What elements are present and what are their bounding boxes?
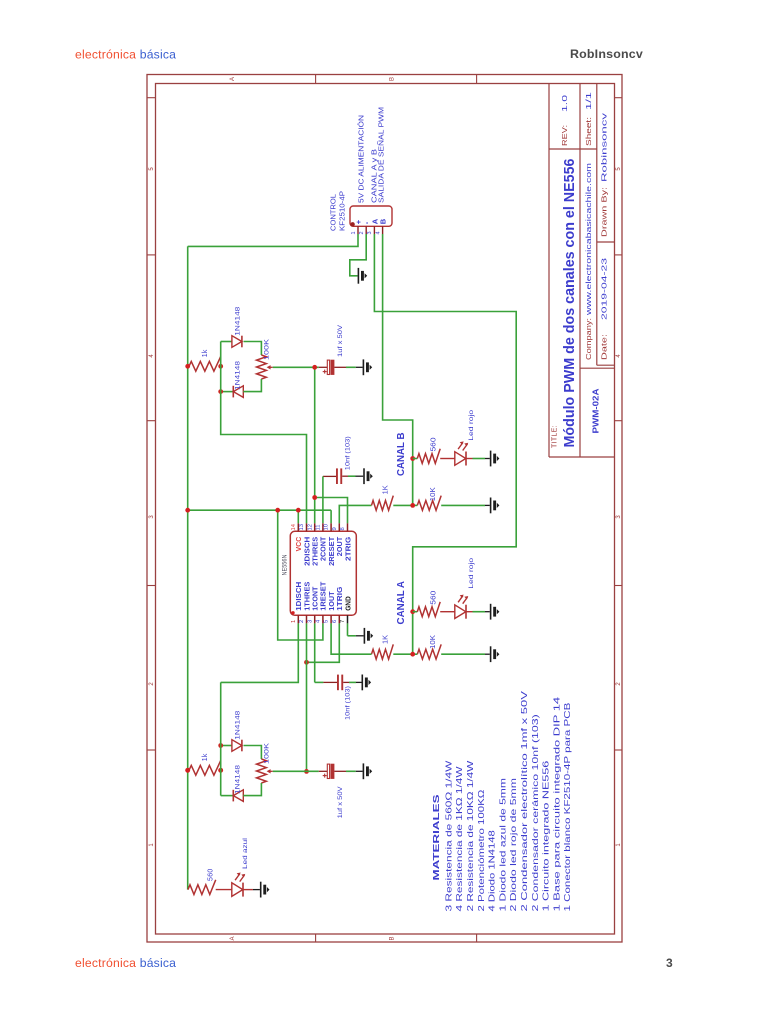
LED red canal A xyxy=(455,605,466,619)
svg-text:1K: 1K xyxy=(383,635,390,644)
resistor 1k bottom body xyxy=(189,760,221,775)
connector X1 KF2510-4P body xyxy=(350,206,392,226)
diode 1N4148 bottom D-bottom xyxy=(221,795,234,797)
ground at 10K canal A xyxy=(490,646,492,662)
svg-text:2OUT: 2OUT xyxy=(337,536,344,556)
resistor 1K canal A xyxy=(372,644,394,659)
capacitor 1uF top right lead xyxy=(334,366,346,368)
svg-text:VCC: VCC xyxy=(296,537,303,552)
capacitor electrolytic 1uF top xyxy=(327,360,329,374)
wire node vertical canal A xyxy=(412,612,414,655)
svg-text:10K: 10K xyxy=(430,635,437,649)
connector X1 pin stubs xyxy=(358,226,383,234)
capacitor 1uF bottom lead xyxy=(319,770,327,772)
capacitor electrolytic 1uF bottom xyxy=(327,764,329,778)
resistor 560 canal A xyxy=(417,602,440,617)
IC U1 bottom pin numbers xyxy=(291,619,346,623)
svg-text:www.electronicabasicachile.com: www.electronicabasicachile.com xyxy=(584,163,593,316)
ground at pin7 xyxy=(364,628,366,644)
svg-text:1N4148: 1N4148 xyxy=(235,710,242,739)
svg-text:3 Resistencia de 560Ω 1/4W: 3 Resistencia de 560Ω 1/4W xyxy=(444,760,453,911)
wire pin11 2CONT to 10nf xyxy=(322,476,324,523)
wire wiper row top xyxy=(273,366,319,368)
svg-text:12: 12 xyxy=(307,524,313,530)
junction dot node RES canal B xyxy=(410,503,415,508)
wire node vertical canal B xyxy=(412,459,414,506)
svg-text:1/1: 1/1 xyxy=(584,92,593,110)
svg-text:5V DC ALIMENTACIÓN: 5V DC ALIMENTACIÓN xyxy=(357,115,366,203)
svg-text:2 Potenciómetro 100KΩ: 2 Potenciómetro 100KΩ xyxy=(477,790,486,912)
svg-text:CANAL B: CANAL B xyxy=(396,433,407,477)
junction dot pin2 pin6 jog xyxy=(304,660,309,665)
wire connector pin1 to +5V rail xyxy=(188,234,358,246)
wire LED azul to ground xyxy=(243,889,253,891)
wire pin1 1DISCH to bottom network xyxy=(221,623,299,682)
capacitor 10nf top right lead xyxy=(342,475,348,477)
svg-text:1k: 1k xyxy=(202,753,209,761)
LED red canal B xyxy=(455,452,466,466)
wire pin3 1CONT down xyxy=(314,623,316,682)
IC U1 top pin numbers xyxy=(291,523,346,530)
connector X1 pin numbers 1 2 3 4 xyxy=(351,231,382,234)
svg-text:3: 3 xyxy=(666,956,673,970)
frame outer border xyxy=(147,75,622,943)
svg-text:CONTROL: CONTROL xyxy=(331,194,338,231)
svg-text:2THRES: 2THRES xyxy=(313,536,320,565)
capacitor 10nf bottom right lead xyxy=(343,681,349,683)
svg-text:9: 9 xyxy=(332,527,338,530)
svg-text:5: 5 xyxy=(324,620,330,623)
svg-text:13: 13 xyxy=(299,524,305,530)
svg-text:NE556N: NE556N xyxy=(282,554,289,575)
ground at 10nf top xyxy=(363,468,365,484)
wire LED to ground canal B xyxy=(466,458,472,460)
IC U1 pin1 marker dot xyxy=(291,611,294,614)
svg-text:2: 2 xyxy=(299,620,305,623)
svg-text:Led rojo: Led rojo xyxy=(468,557,475,588)
resistor 1k top body xyxy=(189,357,221,372)
wire connector pin3 A to canal A xyxy=(374,234,516,654)
svg-text:CANAL A: CANAL A xyxy=(396,581,407,625)
wire pot bottom to diode bottom top xyxy=(243,379,261,392)
wire 560 to LED azul xyxy=(216,889,232,891)
svg-text:100K: 100K xyxy=(264,338,271,360)
wire VCC horizontal to pins 14 and 10 xyxy=(188,509,331,511)
svg-text:RobInsoncv: RobInsoncv xyxy=(570,47,643,61)
wire pin2 1THRES down to bottom wiper row xyxy=(306,623,308,771)
ground at 10nf bottom xyxy=(362,675,364,691)
capacitor 10nf bottom lead xyxy=(323,681,337,683)
resistor 1K canal B xyxy=(372,496,394,511)
svg-text:560: 560 xyxy=(430,591,437,605)
svg-text:electrónica básica: electrónica básica xyxy=(75,48,176,62)
wire 10K to ground canal A xyxy=(441,653,485,655)
ground at LED canal A xyxy=(490,604,492,620)
wire node to 10K canal A xyxy=(413,653,418,655)
wire pin10 stub up xyxy=(330,510,332,523)
svg-text:560: 560 xyxy=(430,437,437,451)
ground near connector xyxy=(358,268,360,284)
wire pin5 1OUT to canal A resistor xyxy=(331,623,371,654)
svg-text:1 Diodo led azul de 5mm: 1 Diodo led azul de 5mm xyxy=(498,778,507,912)
svg-text:10K: 10K xyxy=(430,487,437,501)
junction dots bottom network xyxy=(185,768,190,773)
potentiometer 100K bottom wiper arrow xyxy=(269,770,273,772)
svg-text:2RESET: 2RESET xyxy=(329,536,336,566)
wire node to 560 canal A xyxy=(413,611,418,613)
svg-text:14: 14 xyxy=(291,523,297,530)
op-amp U1 NE556N body xyxy=(290,531,356,615)
svg-text:2DISCH: 2DISCH xyxy=(304,537,311,566)
svg-text:4: 4 xyxy=(375,231,381,234)
svg-text:1RESET: 1RESET xyxy=(321,581,328,611)
wire node to 10K canal B xyxy=(413,504,418,506)
diode 1N4148 top D-top xyxy=(221,341,232,343)
ground at 10K canal B xyxy=(490,498,492,514)
wire 10K to ground canal B xyxy=(441,504,485,506)
svg-text:1 Base para circuito integrado: 1 Base para circuito integrado DIP 14 xyxy=(552,696,561,911)
svg-text:Led azul: Led azul xyxy=(242,837,249,869)
junction dot rail VCC line xyxy=(185,508,190,513)
svg-text:4 Diodo 1N4148: 4 Diodo 1N4148 xyxy=(488,830,497,912)
svg-text:Company:: Company: xyxy=(584,318,593,360)
svg-text:2019-04-23: 2019-04-23 xyxy=(599,258,608,320)
wire pin7 GND to ground xyxy=(347,623,349,635)
wire wiper row bottom xyxy=(273,770,319,772)
junction dots top network xyxy=(185,364,190,369)
frame ticks xyxy=(147,75,622,943)
svg-text:PWM-02A: PWM-02A xyxy=(590,389,600,434)
svg-text:TITLE:: TITLE: xyxy=(552,425,559,448)
svg-text:B: B xyxy=(379,218,388,224)
wire network vertical top xyxy=(220,342,222,392)
svg-text:1: 1 xyxy=(351,231,357,234)
svg-text:1OUT: 1OUT xyxy=(329,591,336,611)
svg-text:2 Diodo led rojo de 5mm: 2 Diodo led rojo de 5mm xyxy=(509,778,518,912)
svg-text:A: A xyxy=(230,936,236,940)
resistor 10K canal A xyxy=(417,644,441,659)
svg-text:11: 11 xyxy=(316,524,322,530)
svg-text:1K: 1K xyxy=(383,485,390,494)
svg-text:2 Condensador cerámico 10nf (1: 2 Condensador cerámico 10nf (103) xyxy=(531,714,540,912)
capacitor 1uF top lead xyxy=(319,366,327,368)
wire LED to ground canal A xyxy=(466,611,472,613)
junction dot node LED canal A xyxy=(410,609,415,614)
wire 560 to LED canal B xyxy=(440,458,455,460)
LED azul xyxy=(232,883,243,897)
wire 1K to node canal A xyxy=(393,653,412,655)
svg-text:1N4148: 1N4148 xyxy=(235,765,242,794)
potentiometer 100K bottom body xyxy=(257,759,267,783)
svg-text:2CONT: 2CONT xyxy=(321,536,328,561)
wire +5V rail vertical xyxy=(187,246,189,889)
svg-text:7: 7 xyxy=(340,620,346,623)
svg-text:1THRES: 1THRES xyxy=(304,581,311,610)
wire pin14 stub up xyxy=(297,510,299,523)
svg-text:SALIDA DE SEÑAL PWM: SALIDA DE SEÑAL PWM xyxy=(376,107,385,203)
svg-text:1 Circuito integrado NE556: 1 Circuito integrado NE556 xyxy=(542,760,551,912)
wire pin12 2THRES to wiper row xyxy=(314,367,316,523)
svg-text:6: 6 xyxy=(332,620,338,623)
connector X1 pin labels + - A B xyxy=(354,218,388,224)
svg-text:2 Resistencia de 10KΩ 1/4W: 2 Resistencia de 10KΩ 1/4W xyxy=(466,760,475,911)
IC U1 top pin labels xyxy=(296,536,352,566)
svg-text:CANAL A y B: CANAL A y B xyxy=(371,149,378,203)
ground at 1uF bottom xyxy=(363,763,365,779)
junction dot VCC branch pin4 xyxy=(275,508,280,513)
svg-text:2 Condensador electrolítico 1m: 2 Condensador electrolítico 1mf x 50V xyxy=(520,690,529,911)
wire pin12 to pin8 2TRIG jog xyxy=(315,498,348,524)
wire 1K to node canal B xyxy=(393,504,412,506)
frame row numbers xyxy=(149,167,622,847)
svg-text:10nf (103): 10nf (103) xyxy=(345,436,352,470)
resistor 560 canal B xyxy=(417,449,440,464)
svg-text:1CONT: 1CONT xyxy=(313,586,320,611)
potentiometer 100K top body xyxy=(257,355,267,379)
svg-text:560: 560 xyxy=(208,868,215,881)
svg-text:electrónica básica: electrónica básica xyxy=(75,956,176,970)
diode 1N4148 bottom D-top xyxy=(221,745,232,747)
junction dot pin12 pin8 jog xyxy=(312,495,317,500)
svg-text:100K: 100K xyxy=(264,742,271,764)
wire network vertical bottom xyxy=(220,682,222,795)
ground at LED azul xyxy=(260,882,262,898)
junction dot node LED canal B xyxy=(410,456,415,461)
junction dot wiper row pin12 xyxy=(312,365,317,370)
svg-text:3: 3 xyxy=(367,231,373,234)
svg-text:1N4148: 1N4148 xyxy=(235,361,242,390)
connector X1 origin dot xyxy=(350,222,354,226)
wire connector pin2 to ground xyxy=(350,234,366,276)
svg-text:8: 8 xyxy=(340,527,346,530)
potentiometer 100K top wiper arrow xyxy=(269,366,273,368)
junction dot pin2 bottom wiper xyxy=(304,769,309,774)
svg-text:A: A xyxy=(230,77,236,81)
svg-text:Led rojo: Led rojo xyxy=(468,409,475,440)
svg-text:MATERIALES: MATERIALES xyxy=(432,793,441,880)
junction dot VCC pin14 xyxy=(296,508,301,513)
resistor 560 azul xyxy=(188,880,216,895)
svg-text:1 Conector blanco KF2510-4P pa: 1 Conector blanco KF2510-4P para PCB xyxy=(563,703,572,912)
svg-text:B: B xyxy=(390,936,396,940)
capacitor ceramic 10nf bottom xyxy=(337,675,339,691)
svg-text:1N4148: 1N4148 xyxy=(235,306,242,335)
svg-text:B: B xyxy=(390,77,396,81)
junction dot rail at 1k top xyxy=(185,768,190,773)
diode 1N4148 top D-bottom xyxy=(221,391,234,393)
svg-text:Date:: Date: xyxy=(599,334,608,360)
svg-text:Robinsoncv: Robinsoncv xyxy=(599,113,608,182)
svg-text:1TRIG: 1TRIG xyxy=(337,586,344,611)
wire 560 to LED canal A xyxy=(440,611,455,613)
IC U1 top pin stubs xyxy=(298,523,347,531)
IC U1 bottom pin labels xyxy=(296,581,352,611)
frame column letters xyxy=(230,77,396,941)
svg-text:1k: 1k xyxy=(202,349,209,357)
wire pin6 1TRIG jog to pin2 xyxy=(307,623,340,662)
wire pot bottom to diode bottom bottom xyxy=(243,783,261,796)
svg-text:2TRIG: 2TRIG xyxy=(345,536,352,561)
capacitor 1uF bottom right lead xyxy=(334,770,346,772)
IC U1 bottom pin stubs xyxy=(298,615,347,623)
svg-text:GND: GND xyxy=(345,596,352,611)
capacitor 10nf top lead from pin 11 xyxy=(323,475,336,477)
wire node to 560 canal B xyxy=(413,458,418,460)
svg-text:1uf x 50V: 1uf x 50V xyxy=(337,786,344,819)
svg-text:REV:: REV: xyxy=(560,125,569,146)
svg-text:1.0: 1.0 xyxy=(560,95,569,112)
svg-text:1uf x 50V: 1uf x 50V xyxy=(337,324,344,357)
svg-text:10nf (103): 10nf (103) xyxy=(345,686,352,720)
capacitor ceramic 10nf top xyxy=(336,468,338,484)
svg-text:2: 2 xyxy=(359,231,365,234)
svg-text:Sheet:: Sheet: xyxy=(584,117,593,146)
resistor 10K canal B xyxy=(417,496,441,511)
svg-text:KF2510-4P: KF2510-4P xyxy=(340,191,347,231)
svg-text:Drawn By:: Drawn By: xyxy=(599,187,608,237)
wire pin13 2DISCH to top network xyxy=(221,392,307,524)
svg-text:4 Resistencia de 1KΩ 1/4W: 4 Resistencia de 1KΩ 1/4W xyxy=(455,766,464,912)
wire diode top to pot bottom xyxy=(244,746,262,760)
wire pin9 2OUT to canal B resistor xyxy=(339,505,371,523)
junction dot node RES canal A xyxy=(410,652,415,657)
svg-text:1: 1 xyxy=(291,620,297,623)
svg-text:10: 10 xyxy=(324,524,330,530)
svg-text:3: 3 xyxy=(307,620,313,623)
svg-text:Módulo PWM de dos canales con: Módulo PWM de dos canales con el NE556 xyxy=(561,159,578,448)
wire connector pin4 B to canal B xyxy=(383,234,413,505)
wire diode top to pot top xyxy=(244,342,262,356)
title block lines xyxy=(549,84,615,458)
ground at LED canal B xyxy=(490,451,492,467)
wire VCC branch to pin4 1RESET xyxy=(278,510,323,640)
svg-text:1DISCH: 1DISCH xyxy=(296,582,303,611)
ground at 1uF top xyxy=(363,359,365,375)
frame inner border xyxy=(156,84,615,935)
